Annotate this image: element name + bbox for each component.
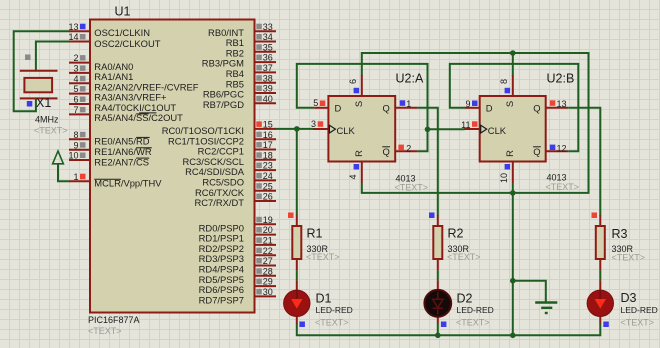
svg-text:<TEXT>: <TEXT> <box>34 126 68 136</box>
U2:B pin11 CLK stub <box>464 128 480 130</box>
svg-text:20: 20 <box>263 225 273 235</box>
svg-text:RC7/RX/DT: RC7/RX/DT <box>195 197 245 208</box>
overline MCLR <box>94 178 121 180</box>
svg-text:4013: 4013 <box>547 173 567 183</box>
svg-text:D: D <box>486 102 493 113</box>
U2:A pin1 square <box>400 100 406 106</box>
U1 pin 30 stub <box>255 295 277 297</box>
svg-text:33: 33 <box>263 22 273 32</box>
svg-text:7: 7 <box>73 105 78 115</box>
svg-text:37: 37 <box>263 63 273 73</box>
U1 pin 29 state square <box>256 279 262 285</box>
U2:A pin2 square <box>398 145 404 151</box>
svg-text:4: 4 <box>73 74 78 84</box>
junction ground rail <box>510 333 516 339</box>
U1 pin 33 stub <box>255 30 277 32</box>
U2:B pin13 square <box>550 100 556 106</box>
U1 pin 13 stub <box>69 30 90 32</box>
svg-text:R: R <box>353 150 364 157</box>
svg-text:RB7/PGD: RB7/PGD <box>203 99 244 110</box>
U1 pin 9 stub <box>69 149 90 151</box>
U2:A pin5 square <box>320 101 326 107</box>
svg-text:14: 14 <box>68 32 78 42</box>
svg-text:27: 27 <box>263 256 273 266</box>
svg-text:26: 26 <box>263 192 273 202</box>
U1 pin 24 state square <box>256 173 262 179</box>
U1 pin 39 state square <box>256 86 262 92</box>
svg-text:D1: D1 <box>316 292 332 306</box>
svg-text:1: 1 <box>73 172 78 182</box>
LED anode lead <box>437 280 439 291</box>
svg-text:5: 5 <box>313 98 318 108</box>
wire ground branch <box>513 281 546 302</box>
wire down to R1 <box>296 129 298 215</box>
U1 pin 18 stub <box>255 159 277 161</box>
wire QbarA branch to pin2 <box>418 129 428 151</box>
U1 pin 3 state square <box>80 65 86 71</box>
wire R10 down to ground rail <box>512 183 514 335</box>
svg-text:38: 38 <box>263 73 273 83</box>
U1 pin 19 stub <box>255 223 277 225</box>
svg-text:OSC2/CLKOUT: OSC2/CLKOUT <box>94 38 160 49</box>
svg-text:2: 2 <box>73 53 78 63</box>
wire pin14 to crystal top <box>36 42 70 71</box>
svg-text:<TEXT>: <TEXT> <box>306 252 340 262</box>
U1 pin 16 state square <box>256 132 262 138</box>
U1 pin 14 state square <box>80 34 86 40</box>
underline I/C1 (RA4 row) <box>139 112 156 114</box>
svg-text:36: 36 <box>263 53 273 63</box>
U1 pin 23 stub <box>255 169 277 171</box>
D1 cathode square <box>299 322 305 328</box>
U1 pin 22 state square <box>256 248 262 254</box>
svg-text:PIC16F877A: PIC16F877A <box>88 315 140 325</box>
svg-text:39: 39 <box>263 84 273 94</box>
U1 pin 2 state square <box>80 55 86 61</box>
svg-text:S: S <box>353 101 364 107</box>
svg-text:3: 3 <box>311 119 316 129</box>
svg-text:10: 10 <box>68 151 78 161</box>
U2:B pin10 square <box>505 164 511 170</box>
overline RD (RE0) <box>136 136 150 138</box>
wire QA to R2 <box>418 108 438 216</box>
svg-text:<TEXT>: <TEXT> <box>612 252 646 262</box>
wire pin1 MCLR <box>58 164 70 182</box>
U1 pin 18 state square <box>256 152 262 158</box>
wire bottom cathode rail <box>296 316 298 324</box>
U1 pin 19 state square <box>256 217 262 223</box>
U2:A CLK triangle <box>329 125 335 133</box>
U1 pin 26 stub <box>255 200 277 202</box>
U1 pin 28 stub <box>255 275 277 277</box>
resistor R3 lead top <box>599 215 601 226</box>
crystal X1 body <box>24 78 52 92</box>
microcontroller U1 PIC16F877A <box>90 20 255 313</box>
overline CS (RE2) <box>136 157 149 159</box>
U2:B pin12 Qbar stub <box>546 150 569 152</box>
U1 pin 28 state square <box>256 268 262 274</box>
LED anode lead <box>296 280 298 291</box>
U1 pin 34 stub <box>255 41 277 43</box>
svg-text:34: 34 <box>263 32 273 42</box>
svg-text:35: 35 <box>263 42 273 52</box>
svg-text:R1: R1 <box>307 227 323 241</box>
resistor R1 lead bottom <box>296 259 298 270</box>
D2 cathode square <box>441 322 447 328</box>
LED D3 (lit) <box>587 290 613 316</box>
U2:B pin13 Q stub <box>546 107 569 109</box>
U1 pin 20 stub <box>255 234 277 236</box>
svg-text:S: S <box>504 101 515 107</box>
crystal X1 bottom plate <box>20 97 58 99</box>
svg-text:2: 2 <box>406 144 411 154</box>
svg-text:4: 4 <box>348 174 358 179</box>
U1 pin 35 stub <box>255 51 277 53</box>
U1 pin 22 stub <box>255 254 277 256</box>
U1 pin 10 state square <box>80 153 86 159</box>
junction RC0/R1 <box>294 126 300 132</box>
svg-text:<TEXT>: <TEXT> <box>621 318 655 328</box>
U1 pin 38 state square <box>256 75 262 81</box>
U1 pin 5 state square <box>80 86 86 92</box>
junction S net <box>510 50 516 56</box>
svg-text:8: 8 <box>499 79 509 84</box>
U2:A pin3 CLK stub <box>313 128 328 130</box>
svg-text:D: D <box>335 102 342 113</box>
U1 pin 29 stub <box>255 285 277 287</box>
crystal blue marker square <box>27 101 33 107</box>
MCLR input arrow <box>53 151 64 164</box>
U1 pin 37 state square <box>256 65 262 71</box>
svg-text:OSC1/CLKIN: OSC1/CLKIN <box>94 27 150 38</box>
svg-text:12: 12 <box>557 144 567 154</box>
U1 pin 6 stub <box>69 103 90 105</box>
U1 pin 30 state square <box>256 289 262 295</box>
U1 pin 17 state square <box>256 142 262 148</box>
svg-text:U2:A: U2:A <box>396 72 424 86</box>
svg-text:RD7/PSP7: RD7/PSP7 <box>199 294 244 305</box>
svg-text:U1: U1 <box>115 5 131 19</box>
U1 pin 8 stub <box>69 138 90 140</box>
U2:B pin9 square <box>472 101 478 107</box>
U1 pin 9 state square <box>80 142 86 148</box>
svg-text:16: 16 <box>263 130 273 140</box>
svg-text:30: 30 <box>263 287 273 297</box>
overline WR (RE1) <box>136 147 152 149</box>
wire S/R net top <box>362 53 589 193</box>
U2:A pin6 square <box>354 88 360 94</box>
svg-text:Q: Q <box>383 102 390 113</box>
wire QB to R3 <box>568 108 600 216</box>
U1 pin 39 stub <box>255 92 277 94</box>
svg-text:13: 13 <box>68 22 78 32</box>
svg-text:40: 40 <box>263 94 273 104</box>
svg-text:<TEXT>: <TEXT> <box>456 318 490 328</box>
wire S8 riser <box>512 53 514 76</box>
U1 pin 35 state square <box>256 44 262 50</box>
junction D2 cathode <box>435 333 441 339</box>
wire QbarB to DB (feedback) <box>450 64 579 151</box>
U1 pin 8 state square <box>80 132 86 138</box>
crystal grey marker square <box>25 55 31 61</box>
U1 pin 27 stub <box>255 265 277 267</box>
svg-text:17: 17 <box>263 140 273 150</box>
svg-text:D2: D2 <box>457 292 473 306</box>
junction R net / SR wire <box>510 190 516 196</box>
U1 pin 36 state square <box>256 55 262 61</box>
svg-text:U2:B: U2:B <box>547 72 575 86</box>
U1 pin 4 stub <box>69 82 90 84</box>
svg-text:3: 3 <box>73 64 78 74</box>
svg-text:R: R <box>504 150 515 157</box>
LED D1 (lit) <box>284 290 310 316</box>
svg-text:6: 6 <box>73 95 78 105</box>
U2:B pin10 R stub <box>512 162 514 184</box>
U1 pin 23 state square <box>256 163 262 169</box>
U1 pin 4 state square <box>80 76 86 82</box>
junction ground branch <box>510 278 516 284</box>
U1 pin 25 state square <box>256 183 262 189</box>
U2:B pin12 square <box>550 145 556 151</box>
LED anode lead <box>599 280 601 291</box>
svg-text:D3: D3 <box>621 291 637 305</box>
svg-text:9: 9 <box>73 140 78 150</box>
wire QbarA to DA (feedback) <box>297 64 428 129</box>
resistor R3 body <box>596 226 605 259</box>
svg-text:22: 22 <box>263 246 273 256</box>
wire R2 to LED <box>437 270 439 280</box>
U1 pin 21 state square <box>256 237 262 243</box>
svg-text:28: 28 <box>263 266 273 276</box>
U1 pin 24 stub <box>255 179 277 181</box>
U2:B pin8 square <box>505 88 511 94</box>
U2:A pin4 square <box>354 164 360 170</box>
U1 pin 40 stub <box>255 102 277 104</box>
resistor R1 lead top <box>296 215 298 226</box>
svg-text:Q: Q <box>533 146 540 157</box>
svg-text:9: 9 <box>465 99 470 109</box>
svg-text:<TEXT>: <TEXT> <box>395 183 429 193</box>
svg-text:R2: R2 <box>448 227 464 241</box>
U1 pin 7 state square <box>80 107 86 113</box>
U1 pin 5 stub <box>69 93 90 95</box>
resistor R2 state square <box>429 213 435 219</box>
wire pin13 to crystal bottom <box>14 31 70 111</box>
U1 pin 26 state square <box>256 194 262 200</box>
resistor R3 lead bottom <box>599 259 601 270</box>
svg-text:CLK: CLK <box>337 125 356 136</box>
U1 pin 40 state square <box>256 96 262 102</box>
svg-text:8: 8 <box>73 130 78 140</box>
U1 pin 27 state square <box>256 258 262 264</box>
svg-text:Q: Q <box>533 102 540 113</box>
U1 pin 25 stub <box>255 190 277 192</box>
resistor R2 lead top <box>437 215 439 226</box>
svg-text:<TEXT>: <TEXT> <box>447 252 481 262</box>
svg-text:<TEXT>: <TEXT> <box>315 318 349 328</box>
wire RC0 pin15 to CLK pin3 <box>276 128 314 130</box>
U1 pin 16 stub <box>255 138 277 140</box>
svg-text:LED-RED: LED-RED <box>621 305 658 315</box>
U1 pin 17 stub <box>255 149 277 151</box>
U1 pin 36 stub <box>255 61 277 63</box>
svg-text:10: 10 <box>499 173 509 183</box>
U1 pin 3 stub <box>69 72 90 74</box>
svg-text:19: 19 <box>263 215 273 225</box>
U2:A pin2 Qbar stub <box>395 150 418 152</box>
svg-text:Q: Q <box>383 146 390 157</box>
U1 pin 6 state square <box>80 97 86 103</box>
D3 cathode square <box>603 322 609 328</box>
svg-text:21: 21 <box>263 236 273 246</box>
svg-text:18: 18 <box>263 150 273 160</box>
LED D2 (off) <box>424 290 451 317</box>
U1 pin 20 state square <box>256 227 262 233</box>
U1 pin 7 stub <box>69 113 90 115</box>
resistor R1 state square <box>288 213 294 219</box>
crystal X1 top plate <box>20 70 58 72</box>
svg-text:24: 24 <box>263 171 273 181</box>
U1 pin 13 state square <box>80 24 86 30</box>
resistor R1 body <box>292 226 301 259</box>
U1 pin 15 stub <box>255 128 277 130</box>
U2:B pin9 D stub <box>466 107 480 109</box>
svg-text:R3: R3 <box>612 227 628 241</box>
U1 pin 2 stub <box>69 62 90 64</box>
svg-text:CLK: CLK <box>488 125 507 136</box>
U1 pin 14 stub <box>69 41 90 43</box>
U2:A pin3 square <box>318 121 324 127</box>
svg-text:LED-RED: LED-RED <box>316 305 353 315</box>
U1 pin 15 state square <box>256 121 262 127</box>
svg-text:1: 1 <box>406 99 411 109</box>
svg-text:X1: X1 <box>36 96 51 110</box>
wire R1 to LED <box>296 270 298 280</box>
U1 pin 1 state square <box>80 174 86 180</box>
overline SS (RA5) <box>136 113 149 115</box>
U1 pin 21 stub <box>255 244 277 246</box>
U1 pin 33 state square <box>256 24 262 30</box>
wire D2 cathode <box>437 316 439 324</box>
ground symbol <box>535 301 557 303</box>
svg-text:15: 15 <box>263 120 273 130</box>
U2:A pin4 R stub <box>361 162 363 184</box>
svg-text:<TEXT>: <TEXT> <box>88 326 122 336</box>
resistor R2 body <box>433 226 442 259</box>
flip-flop U2:B body <box>480 96 546 162</box>
svg-text:13: 13 <box>557 99 567 109</box>
svg-text:29: 29 <box>263 277 273 287</box>
svg-text:25: 25 <box>263 181 273 191</box>
svg-text:5: 5 <box>73 84 78 94</box>
svg-text:4MHz: 4MHz <box>35 115 59 125</box>
U2:B pin11 square <box>472 121 478 127</box>
flip-flop U2:A body <box>328 96 395 162</box>
svg-text:LED-RED: LED-RED <box>457 305 494 315</box>
U2:B pin8 S stub <box>512 75 514 96</box>
U2:B CLK triangle <box>481 125 487 133</box>
resistor R3 state square <box>592 213 598 219</box>
junction QbarA net <box>425 127 431 133</box>
wire QbarA to CLK U2:B <box>428 128 465 130</box>
U2:A pin6 S stub <box>361 75 363 96</box>
U1 pin 37 stub <box>255 71 277 73</box>
svg-text:<TEXT>: <TEXT> <box>546 182 580 192</box>
U1 pin 34 state square <box>256 34 262 40</box>
wire R3 to LED <box>599 270 601 280</box>
svg-text:RC0/T1OSO/T1CKI: RC0/T1OSO/T1CKI <box>162 125 244 136</box>
U1 pin 1 stub <box>69 180 90 182</box>
U1 pin 38 stub <box>255 82 277 84</box>
svg-text:23: 23 <box>263 161 273 171</box>
U2:A pin5 D stub <box>314 107 328 109</box>
resistor R2 lead bottom <box>437 259 439 270</box>
U2:A pin1 Q stub <box>395 107 418 109</box>
svg-text:6: 6 <box>348 79 358 84</box>
U1 pin 10 stub <box>69 159 90 161</box>
